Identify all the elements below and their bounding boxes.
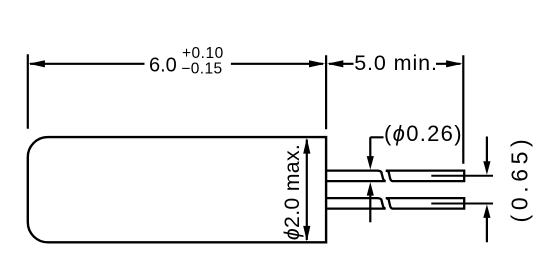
svg-text:6.0: 6.0	[149, 54, 177, 76]
svg-text:−0.15: −0.15	[181, 60, 222, 77]
svg-text:ϕ2.0 max.: ϕ2.0 max.	[280, 144, 304, 240]
svg-text:(0.65): (0.65)	[506, 135, 532, 223]
svg-text:(ϕ0.26): (ϕ0.26)	[384, 121, 463, 146]
svg-text:5.0 min.: 5.0 min.	[354, 51, 438, 75]
